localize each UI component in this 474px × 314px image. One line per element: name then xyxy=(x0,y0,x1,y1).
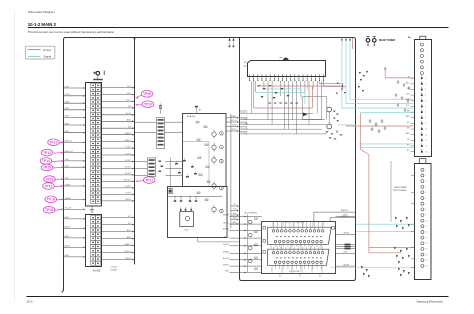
svg-text:1: 1 xyxy=(425,170,426,172)
svg-text:TU-B5: TU-B5 xyxy=(241,133,246,135)
svg-text:This Document can not be used: This Document can not be used without Sa… xyxy=(28,30,115,34)
svg-text:TDA8395: TDA8395 xyxy=(296,221,305,224)
svg-text:AUDIO-R: AUDIO-R xyxy=(341,215,350,218)
svg-text:SCL: SCL xyxy=(406,105,410,107)
svg-text:AS: AS xyxy=(407,110,410,113)
svg-text:MUTE: MUTE xyxy=(344,264,350,266)
svg-text:AGC: AGC xyxy=(406,81,411,84)
svg-text:GND-2: GND-2 xyxy=(125,258,131,260)
svg-text:SDA-M: SDA-M xyxy=(65,197,72,200)
svg-text:TP16: TP16 xyxy=(45,177,53,181)
svg-text:(PIP TUNER): (PIP TUNER) xyxy=(393,190,406,192)
svg-text:7: 7 xyxy=(425,203,426,205)
svg-text:4: 4 xyxy=(425,186,426,188)
svg-text:KEY2: KEY2 xyxy=(65,116,70,118)
svg-text:5: 5 xyxy=(425,192,426,194)
svg-text:AUDIO-L: AUDIO-L xyxy=(65,140,73,143)
svg-text:AV-R: AV-R xyxy=(127,236,132,239)
svg-text:AV-L: AV-L xyxy=(127,229,131,232)
svg-text:13: 13 xyxy=(425,146,427,148)
svg-text:9V-1: 9V-1 xyxy=(127,93,131,95)
svg-text:V-OUT: V-OUT xyxy=(125,193,132,195)
svg-text:2: 2 xyxy=(425,84,426,86)
svg-text:NC: NC xyxy=(407,144,410,146)
svg-text:AV2-L: AV2-L xyxy=(65,235,70,238)
svg-text:TU-SDA: TU-SDA xyxy=(241,122,248,125)
svg-text:KEY1: KEY1 xyxy=(65,108,70,110)
svg-text:NC: NC xyxy=(407,150,410,152)
svg-text:14: 14 xyxy=(425,151,427,153)
svg-text:10-2: 10-2 xyxy=(27,300,33,304)
svg-text:MUTE: MUTE xyxy=(231,129,237,131)
svg-text:Y-IN: Y-IN xyxy=(65,159,69,161)
svg-text:TP11: TP11 xyxy=(145,178,153,182)
svg-text:TU-AGC: TU-AGC xyxy=(241,117,249,120)
svg-text:A2-SW: A2-SW xyxy=(223,257,229,260)
svg-text:CVBS-2: CVBS-2 xyxy=(124,140,131,142)
svg-text:9: 9 xyxy=(425,123,426,125)
svg-text:6: 6 xyxy=(425,198,426,200)
svg-text:GND: GND xyxy=(65,255,70,257)
svg-text:TP10: TP10 xyxy=(144,103,152,107)
svg-text:B+: B+ xyxy=(408,37,412,39)
svg-text:10: 10 xyxy=(425,129,427,131)
svg-text:16: 16 xyxy=(425,254,427,256)
svg-text:TP17: TP17 xyxy=(44,184,52,188)
svg-text:MONO: MONO xyxy=(223,264,229,266)
svg-text:Signal: Signal xyxy=(43,55,51,59)
svg-text:15: 15 xyxy=(425,249,427,251)
svg-text:2: 2 xyxy=(425,175,426,177)
svg-text:H-OUT: H-OUT xyxy=(125,186,132,188)
svg-text:5: 5 xyxy=(425,101,426,103)
svg-text:12V-1: 12V-1 xyxy=(126,100,131,102)
svg-text:M-L: M-L xyxy=(233,213,236,215)
svg-text:S-IF DET ATT: S-IF DET ATT xyxy=(289,270,302,273)
svg-text:10-1-2 MAIN 2: 10-1-2 MAIN 2 xyxy=(28,22,57,27)
svg-text:IF2: IF2 xyxy=(407,122,410,124)
svg-text:A-CONTROL: A-CONTROL xyxy=(245,212,259,215)
svg-text:9: 9 xyxy=(425,215,426,217)
svg-text:SCL-S: SCL-S xyxy=(231,120,237,122)
svg-text:AUDIO-R: AUDIO-R xyxy=(65,150,74,153)
svg-text:IR-IN: IR-IN xyxy=(65,86,70,88)
svg-text:Y-OUT: Y-OUT xyxy=(125,146,132,148)
svg-text:NICAM: NICAM xyxy=(223,251,230,254)
svg-text:7: 7 xyxy=(425,112,426,114)
svg-text:TP12: TP12 xyxy=(49,141,57,145)
svg-text:SIF-IN: SIF-IN xyxy=(344,233,350,235)
svg-text:B9: B9 xyxy=(407,139,409,141)
svg-text:STBY: STBY xyxy=(65,102,71,104)
svg-text:SND-IF: SND-IF xyxy=(223,215,230,217)
svg-text:P-ON: P-ON xyxy=(65,94,70,96)
svg-text:SDA 416: SDA 416 xyxy=(187,115,196,118)
svg-text:14: 14 xyxy=(425,243,427,245)
svg-text:TP19: TP19 xyxy=(47,198,55,202)
svg-text:SDA-S: SDA-S xyxy=(231,115,238,118)
svg-text:TP09: TP09 xyxy=(143,92,151,96)
svg-text:8: 8 xyxy=(425,209,426,211)
svg-text:11: 11 xyxy=(425,134,427,136)
svg-text:Samsung Electronics: Samsung Electronics xyxy=(417,299,444,303)
svg-text:AGC: AGC xyxy=(127,119,132,122)
svg-text:AV2-R: AV2-R xyxy=(65,245,71,248)
svg-text:NICAM: NICAM xyxy=(111,268,118,271)
svg-text:ADR: ADR xyxy=(406,132,410,135)
svg-text:V-IN: V-IN xyxy=(65,177,69,179)
svg-text:12: 12 xyxy=(425,140,427,142)
svg-text:6: 6 xyxy=(425,106,426,108)
svg-text:TU-SCL: TU-SCL xyxy=(241,128,248,130)
svg-text:CON-B: CON-B xyxy=(111,267,118,269)
svg-text:Power: Power xyxy=(43,48,51,52)
svg-text:C-IN: C-IN xyxy=(65,166,70,168)
svg-text:TU-5V: TU-5V xyxy=(126,113,132,115)
svg-text:1: 1 xyxy=(425,78,426,80)
svg-text:FB-OUT: FB-OUT xyxy=(124,180,132,182)
svg-text:B33: B33 xyxy=(406,94,409,96)
svg-text:EXT-L: EXT-L xyxy=(224,236,229,238)
svg-text:REM: REM xyxy=(65,123,70,125)
svg-text:AUD-R: AUD-R xyxy=(223,228,230,231)
svg-text:TP18: TP18 xyxy=(45,208,53,212)
svg-text:Schematic Diagram: Schematic Diagram xyxy=(28,10,55,14)
svg-text:AUD-L: AUD-L xyxy=(223,221,229,224)
svg-text:SIF: SIF xyxy=(407,127,411,129)
svg-text:12: 12 xyxy=(425,232,427,234)
svg-text:18: 18 xyxy=(425,266,427,268)
svg-text:TP13: TP13 xyxy=(43,151,51,155)
svg-text:8: 8 xyxy=(425,117,426,119)
svg-text:AUDIO-L: AUDIO-L xyxy=(341,209,349,212)
svg-text:SCL1-2: SCL1-2 xyxy=(125,251,131,253)
svg-text:SCL-M: SCL-M xyxy=(65,208,71,210)
svg-text:TP15: TP15 xyxy=(43,166,51,170)
svg-text:11: 11 xyxy=(425,226,427,228)
svg-text:SDA1-2: SDA1-2 xyxy=(124,243,131,246)
svg-text:CVBS: CVBS xyxy=(65,184,71,186)
svg-text:AS-508: AS-508 xyxy=(93,269,101,272)
svg-text:CVBS-1: CVBS-1 xyxy=(124,133,131,135)
svg-text:GND: GND xyxy=(406,116,411,118)
svg-text:10: 10 xyxy=(425,220,427,222)
svg-text:3: 3 xyxy=(425,89,426,91)
svg-text:5V-1: 5V-1 xyxy=(127,86,131,88)
svg-text:MAIN TUNER: MAIN TUNER xyxy=(379,38,395,42)
svg-text:GND-1: GND-1 xyxy=(125,199,131,201)
svg-text:GND: GND xyxy=(65,131,70,133)
svg-text:P-L: P-L xyxy=(234,204,237,206)
svg-text:TP14: TP14 xyxy=(42,159,50,163)
svg-text:S-SW: S-SW xyxy=(232,125,237,127)
svg-text:AV1-L: AV1-L xyxy=(65,216,70,219)
svg-text:GND: GND xyxy=(225,271,230,273)
svg-text:X501: X501 xyxy=(184,229,188,231)
svg-text:4: 4 xyxy=(425,95,426,97)
svg-text:3: 3 xyxy=(425,181,426,183)
svg-text:17: 17 xyxy=(425,260,427,262)
svg-text:SUB TUNER: SUB TUNER xyxy=(394,187,407,189)
svg-text:EXT-R: EXT-R xyxy=(223,244,229,246)
svg-text:R-OUT: R-OUT xyxy=(125,160,132,162)
svg-text:G-OUT: G-OUT xyxy=(125,167,132,169)
svg-text:C-OUT: C-OUT xyxy=(125,153,132,155)
svg-text:M-R: M-R xyxy=(233,218,237,220)
svg-text:B-OUT: B-OUT xyxy=(125,173,132,175)
svg-text:13: 13 xyxy=(425,237,427,239)
svg-text:AV1-R: AV1-R xyxy=(65,226,71,229)
